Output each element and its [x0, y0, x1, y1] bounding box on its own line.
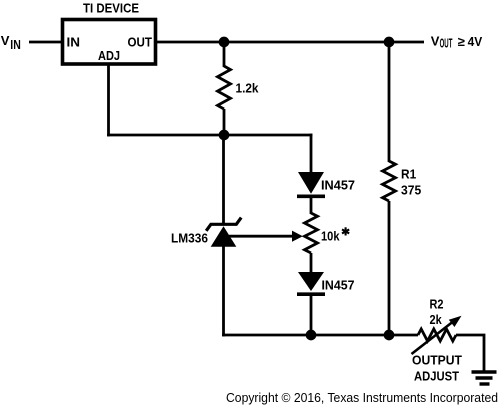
- diode D1 IN457: [297, 172, 325, 196]
- wire D1 to potentiometer 10k: [310, 196, 313, 214]
- wiper arrow of potentiometer R2: [412, 312, 465, 354]
- wire pot 10k to diode D2: [310, 253, 313, 273]
- svg-text:ADJ: ADJ: [98, 48, 120, 63]
- wire R1 to bottom rail: [388, 201, 391, 335]
- svg-text:4V: 4V: [468, 34, 483, 49]
- svg-text:IN457: IN457: [321, 178, 355, 193]
- svg-text:ADJUST: ADJUST: [414, 369, 459, 384]
- wire junction to resistor 1.2k: [223, 42, 226, 67]
- label 10k*: [321, 227, 349, 243]
- wire D2 to bottom rail: [310, 293, 313, 335]
- wire R2 to ground: [456, 335, 484, 372]
- wire VOUT rail down to resistor R1: [388, 42, 391, 162]
- junction bottom R1: [384, 330, 395, 341]
- svg-text:OUTPUT: OUTPUT: [412, 353, 462, 368]
- svg-text:Copyright © 2016, Texas Instru: Copyright © 2016, Texas Instruments Inco…: [226, 390, 498, 405]
- svg-text:OUT: OUT: [128, 35, 153, 50]
- wire bottom rail: [222, 334, 418, 337]
- diode D2 IN457: [297, 272, 325, 294]
- wire LM336 anode to bottom rail: [222, 246, 225, 336]
- potentiometer R2 2k body: [418, 329, 456, 341]
- svg-text:10k: 10k: [321, 229, 340, 244]
- svg-text:R2: R2: [430, 297, 444, 312]
- svg-text:IN457: IN457: [322, 277, 355, 292]
- zener reference U2 LM336: [206, 218, 241, 247]
- wire VIN to pin IN: [29, 41, 62, 44]
- wire resistor 1.2k to junction ADJ rail: [223, 109, 226, 135]
- junction bottom diode branch: [306, 330, 317, 341]
- node VIN: [1, 33, 21, 52]
- svg-text:R1: R1: [401, 167, 416, 182]
- ground: [472, 372, 497, 384]
- wire OUT to VOUT rail: [156, 41, 424, 44]
- potentiometer 10k body: [305, 213, 318, 253]
- op-amp U1 TI DEVICE box: [63, 20, 156, 65]
- wire junction to diode branch top: [224, 134, 312, 137]
- resistor R1 375: [383, 161, 396, 201]
- junction top R1 tap: [384, 37, 395, 48]
- svg-text:TI DEVICE: TI DEVICE: [83, 1, 139, 16]
- wire ADJ horizontal to junction: [107, 134, 224, 137]
- node VOUT: [431, 33, 483, 50]
- svg-text:V: V: [431, 33, 440, 48]
- svg-text:V: V: [1, 33, 10, 48]
- wire junction down to LM336: [222, 135, 225, 224]
- svg-text:2k: 2k: [430, 312, 443, 327]
- junction ADJ rail: [219, 130, 230, 141]
- svg-text:LM336: LM336: [171, 231, 208, 246]
- junction top 1.2k tap: [219, 37, 230, 48]
- svg-text:≥: ≥: [458, 34, 465, 49]
- wire pin ADJ down: [107, 64, 110, 136]
- svg-text:IN: IN: [10, 37, 20, 52]
- svg-text:IN: IN: [67, 35, 81, 50]
- svg-text:OUT: OUT: [440, 36, 453, 51]
- wiper arrow from LM336 to potentiometer 10k: [229, 231, 303, 242]
- svg-text:1.2k: 1.2k: [236, 81, 260, 96]
- resistor 1.2k: [218, 66, 231, 109]
- wire down to diode D1: [310, 134, 313, 173]
- svg-text:375: 375: [401, 183, 421, 198]
